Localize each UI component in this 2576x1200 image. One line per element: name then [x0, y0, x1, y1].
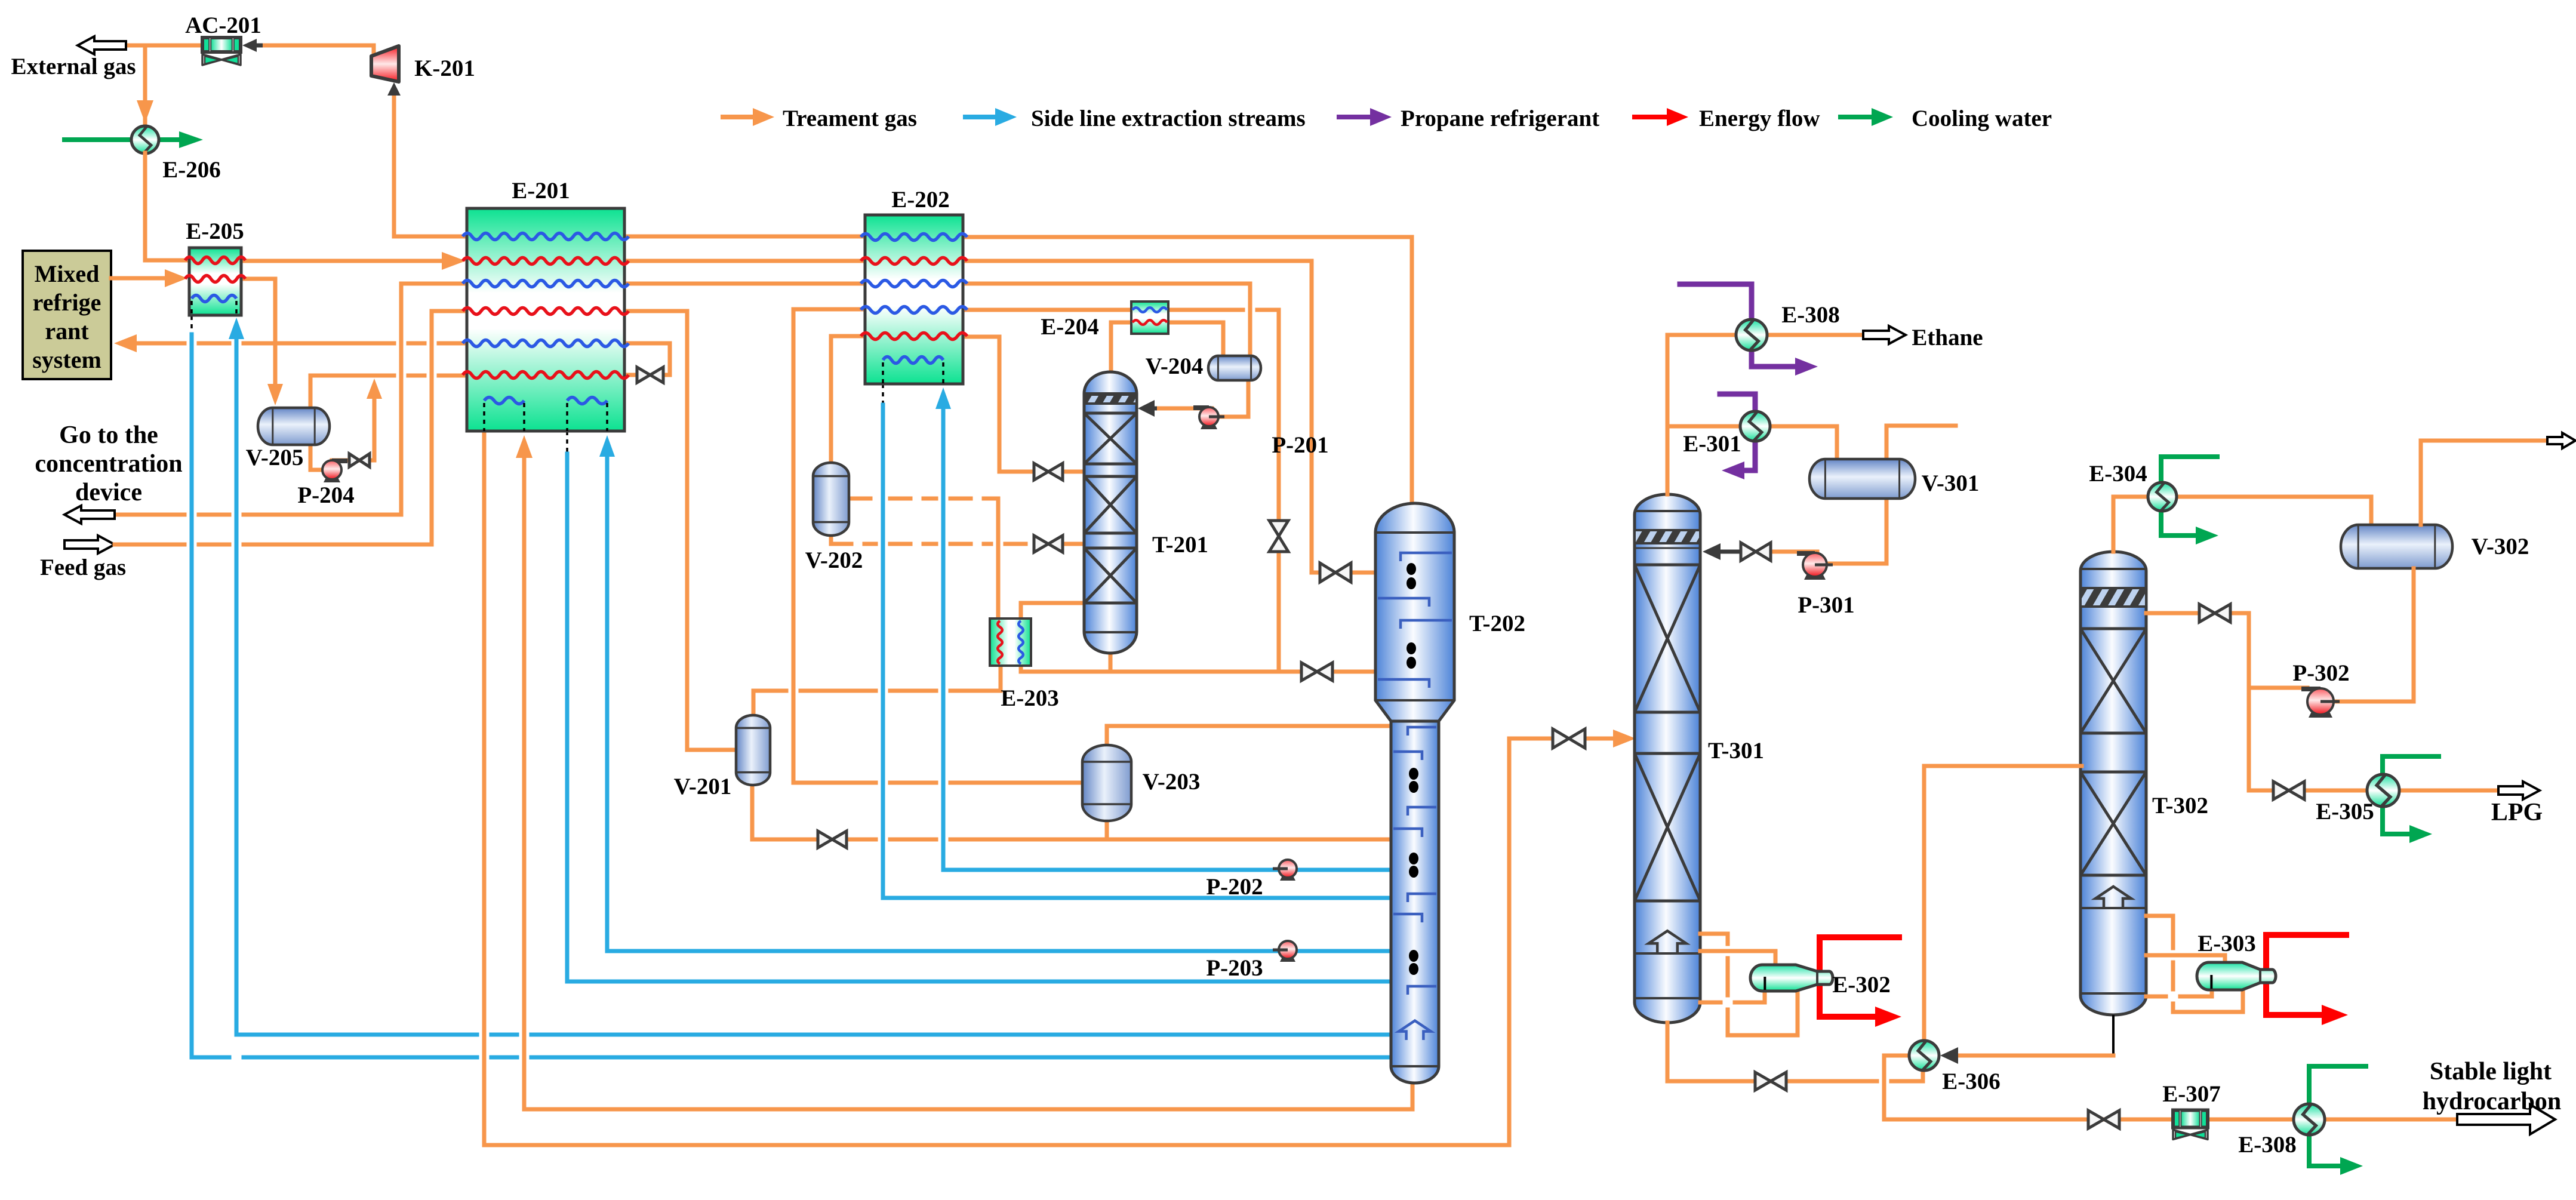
wire: P-204 discharge with valve — [332, 379, 382, 460]
svg-text:T-201: T-201 — [1152, 532, 1208, 558]
label LPG — [2491, 799, 2543, 826]
valve on V-201 bottoms — [818, 831, 847, 848]
wire: E-302 vapor return to T-301 — [1700, 951, 1775, 966]
svg-text:E-201: E-201 — [512, 178, 570, 204]
label K-201 — [414, 56, 475, 81]
svg-text:Cooling water: Cooling water — [1912, 106, 2052, 131]
label E-308 — [2238, 1132, 2297, 1158]
wire: side stream E-202 return to T-202 — [883, 384, 1392, 898]
svg-text:concentration: concentration — [35, 450, 182, 478]
kettle reboiler E-302 — [1750, 965, 1833, 991]
wire: E-202 row2 to T-202 upper feed — [963, 261, 1376, 573]
vertical valve on E-204 line — [1269, 521, 1288, 552]
wire: T-302 reflux and LPG line — [2146, 613, 2498, 790]
svg-text:K-201: K-201 — [414, 56, 475, 81]
svg-text:T-202: T-202 — [1469, 611, 1525, 636]
label P-201 — [1272, 432, 1328, 458]
heat exchanger E-304 — [2148, 482, 2177, 511]
wire: T-202 draw to E-205 with arrow — [229, 318, 1392, 1035]
legend side line extraction streams — [965, 106, 1306, 131]
svg-text:T-302: T-302 — [2152, 793, 2208, 819]
wire: E-201 bottoms to T-301 feed line — [484, 431, 1636, 1145]
pump P-302 — [2301, 688, 2340, 718]
wire: V-202 riser to E-202 row5 — [831, 336, 865, 463]
svg-text:P-302: P-302 — [2292, 660, 2349, 686]
heat exchanger E-306 — [1909, 1041, 1939, 1070]
svg-text:E-302: E-302 — [1832, 972, 1891, 998]
valve on T-201 top feed — [1034, 463, 1063, 480]
svg-text:Ethane: Ethane — [1912, 325, 1983, 350]
propane refrigerant line at E-308 — [1680, 284, 1818, 376]
heat exchanger E-203 — [990, 619, 1031, 666]
svg-text:system: system — [32, 346, 101, 373]
svg-text:E-304: E-304 — [2089, 461, 2147, 487]
wire: E-201 row3 to concentration device — [115, 284, 467, 515]
ethane outline arrow — [1863, 326, 1906, 344]
label E-201 — [512, 178, 570, 204]
wire: E-201 row4 to V-201 — [624, 311, 737, 750]
label E-205 — [186, 219, 244, 244]
multi-stream exchanger E-201 — [463, 208, 629, 431]
label E-307 — [2162, 1081, 2221, 1107]
heat exchanger E-301 — [1740, 411, 1770, 441]
valve on T-301 bottoms — [1755, 1072, 1786, 1090]
label E-304 — [2089, 461, 2147, 487]
svg-text:Mixed: Mixed — [35, 260, 100, 287]
wire: E-202 row4 to E-204 cold pass — [963, 308, 1132, 312]
svg-text:LPG: LPG — [2491, 799, 2543, 826]
svg-text:V-301: V-301 — [1922, 470, 1980, 496]
valve on T-302 reflux — [2199, 604, 2230, 622]
wire: E-306 to T-302 feed — [1924, 766, 2082, 1041]
cooling water at E-304 — [2161, 457, 2218, 544]
svg-text:E-206: E-206 — [162, 157, 221, 183]
wire: E-301 condenser line to V-301 — [1667, 426, 1837, 461]
V-302 outlet outline arrow — [2547, 433, 2575, 448]
svg-text:E-301: E-301 — [1683, 431, 1741, 457]
wire: feed gas to E-201 row4 — [115, 311, 467, 544]
heat exchanger E-204 — [1131, 301, 1168, 334]
LPG outline arrow — [2498, 781, 2540, 799]
wire: V-302 vapor outlet — [2421, 441, 2547, 525]
air cooled exchanger E-307 — [2172, 1110, 2208, 1140]
label V-202 — [805, 547, 863, 573]
svg-text:Side line extraction streams: Side line extraction streams — [1031, 106, 1306, 131]
pump P-301 — [1797, 553, 1833, 580]
wire: V-301 to P-301 reflux into T-301 — [1703, 497, 1886, 564]
column T-202 — [1375, 503, 1454, 1083]
compressor K-201 — [371, 46, 399, 82]
wire: T-301 bottoms to E-306 — [1667, 1023, 1923, 1081]
label E-204 — [1041, 314, 1099, 340]
wire: P-201 reflux to T-201 — [1138, 400, 1212, 417]
svg-text:P-204: P-204 — [297, 482, 354, 508]
svg-text:E-306: E-306 — [1942, 1069, 2001, 1094]
wire: T-302 overhead to E-304 to V-302 — [2113, 497, 2371, 552]
wire: V-202 bottom to T-201 lower feed dashed — [831, 536, 1085, 544]
svg-text:P-203: P-203 — [1206, 955, 1263, 981]
svg-text:E-303: E-303 — [2198, 931, 2256, 956]
svg-text:V-203: V-203 — [1143, 769, 1201, 795]
label E-303 — [2198, 931, 2256, 956]
heat exchanger E-206 — [131, 126, 159, 153]
svg-text:hydrocarbon: hydrocarbon — [2423, 1088, 2562, 1115]
wire: E-202 row1 to T-202 top — [963, 237, 1412, 505]
label P-302 — [2292, 660, 2349, 686]
label V-204 — [1146, 353, 1204, 379]
label T-201 — [1152, 532, 1208, 558]
wire: AC-201 outlet to External gas arrow — [126, 44, 202, 48]
wire: E-204 to V-204 — [1168, 322, 1223, 358]
svg-text:Energy flow: Energy flow — [1699, 106, 1820, 131]
cooling water line through E-206 — [64, 131, 203, 148]
column T-302 — [2081, 552, 2146, 1015]
wire: treated gas down to E-206 — [137, 45, 153, 124]
wire: E-201 row3 to E-202 row3 — [624, 282, 865, 286]
wire: E-202 row3 to V-204 — [963, 284, 1250, 358]
label E-306 — [1942, 1069, 2001, 1094]
svg-text:V-204: V-204 — [1146, 353, 1204, 379]
valve at P-204 discharge — [349, 454, 370, 467]
wire: T-301 sump to E-302 bottom — [1700, 991, 1765, 1002]
wire: T-302 reboiler draw to E-303 — [2146, 916, 2243, 1012]
wire: E-206 to E-205 hot pass — [145, 153, 189, 260]
wire: K-201 discharge to AC-201 — [263, 45, 374, 57]
svg-text:E-205: E-205 — [186, 219, 244, 244]
svg-text:E-308: E-308 — [1781, 302, 1840, 328]
svg-text:Go to the: Go to the — [59, 421, 158, 449]
legend propane refrigerant — [1339, 106, 1599, 131]
label V-205 — [246, 445, 304, 470]
valve on P-301 reflux — [1741, 543, 1771, 561]
label T-301 — [1708, 738, 1764, 764]
cooling water at E-308 — [2309, 1066, 2366, 1175]
svg-text:V-201: V-201 — [674, 774, 732, 799]
propane refrigerant line at E-301 — [1720, 394, 1755, 479]
label External gas — [11, 54, 136, 79]
horizontal vessel V-302 — [2341, 525, 2452, 568]
svg-text:E-202: E-202 — [891, 187, 950, 213]
svg-text:E-204: E-204 — [1041, 314, 1099, 340]
pump P-201 — [1193, 407, 1224, 429]
wire: E-204 to T-202 mid feed via valves — [1168, 310, 1279, 672]
label E-301 — [1683, 431, 1741, 457]
wire: V-203 riser to E-202 row4 — [793, 309, 1084, 783]
label T-202 — [1469, 611, 1525, 636]
energy flow at E-303 — [2266, 935, 2348, 1025]
legend treatment gas — [723, 106, 917, 131]
svg-text:E-307: E-307 — [2162, 1081, 2221, 1107]
mixed refrigerant system box — [23, 251, 111, 379]
wire: E-303 vapor return to T-302 — [2146, 955, 2225, 965]
svg-text:T-301: T-301 — [1708, 738, 1764, 764]
label P-202 — [1206, 874, 1263, 900]
svg-text:V-205: V-205 — [246, 445, 304, 470]
horizontal vessel V-205 — [258, 408, 330, 445]
valve on T-201 lower feed — [1034, 536, 1063, 552]
horizontal vessel V-301 — [1809, 459, 1915, 499]
external gas outline arrow — [78, 36, 126, 54]
label go to the concentration device — [35, 421, 182, 506]
wire: T-301 reboiler draw to E-302 — [1700, 934, 1798, 1035]
cooling water at E-305 — [2383, 756, 2439, 843]
label T-302 — [2152, 793, 2208, 819]
label P-204 — [297, 482, 354, 508]
svg-text:V-202: V-202 — [805, 547, 863, 573]
wire: T-201 overhead to E-204 — [1111, 322, 1132, 372]
air cooler AC-201 — [202, 37, 241, 65]
svg-text:P-201: P-201 — [1272, 432, 1328, 458]
wire: mixed refrigerant to E-205 with arrow — [111, 269, 187, 287]
svg-text:External gas: External gas — [11, 54, 136, 79]
wire: E-306 to product line — [1884, 1056, 2173, 1119]
stable light hydrocarbon outline arrow — [2457, 1104, 2555, 1134]
heat exchanger E-305 — [2367, 774, 2399, 807]
label P-301 — [1798, 592, 1854, 618]
valve on T-202 feed from T-201 bottoms — [1301, 663, 1332, 681]
label AC-201 — [185, 13, 261, 38]
valve on LPG line — [2273, 781, 2304, 799]
label V-302 — [2472, 534, 2529, 559]
legend energy flow — [1635, 106, 1820, 131]
wire: product line through E-307 E-308 to outlet — [2209, 1118, 2457, 1122]
vertical vessel V-203 — [1082, 745, 1131, 821]
pump P-202 — [1273, 860, 1297, 881]
wire: E-201 row1 to E-202 row1 — [624, 235, 865, 239]
feed gas outline arrow — [64, 536, 115, 553]
wire: V-203 bottoms junction — [1105, 821, 1109, 839]
label E-305 — [2316, 799, 2374, 824]
legend cooling water — [1841, 106, 2052, 131]
svg-text:Stable light: Stable light — [2430, 1058, 2552, 1085]
label E-206 — [162, 157, 221, 183]
wire: T-302 bottoms into E-306 — [1940, 1015, 2113, 1064]
label E-302 — [1832, 972, 1891, 998]
multi-stream exchanger E-202 — [861, 215, 967, 384]
wire: V-302 to P-302 reflux — [2249, 568, 2414, 701]
wire: T-302 sump to E-303 bottom — [2146, 990, 2212, 996]
kettle reboiler E-303 — [2197, 962, 2276, 990]
wire: overhead through E-308 to Ethane — [1667, 333, 1863, 337]
wire: E-205 to E-201 row2 with arrow — [241, 252, 466, 270]
wire: E-201 row5-row6 U loop with valve — [624, 343, 670, 375]
go to concentration outline arrow — [64, 506, 115, 524]
label V-201 — [674, 774, 732, 799]
label E-308 overhead — [1781, 302, 1840, 328]
wire: V-201 bottoms to T-202 with valve — [752, 785, 1392, 839]
horizontal vessel V-204 — [1208, 356, 1261, 380]
wire: V-202 middle draw to E-203 dashed — [850, 499, 998, 620]
pump P-204 — [322, 460, 347, 482]
svg-text:device: device — [75, 479, 142, 506]
heat exchanger E-308 overhead — [1736, 319, 1767, 350]
wire: T-202 bottoms to E-201 hot return — [516, 435, 1412, 1109]
column T-201 — [1084, 372, 1137, 653]
valve on product line — [2088, 1110, 2119, 1128]
svg-text:rant: rant — [45, 318, 89, 344]
wire: K-201 suction riser from E-201 row1 — [387, 82, 467, 236]
label V-203 — [1143, 769, 1201, 795]
wire: E-201 row2 to E-202 row2 — [624, 259, 865, 263]
valve on T-202 upper feed — [1320, 563, 1351, 582]
wire: T-202 draw via P-203 to E-201 — [599, 435, 1392, 951]
wire: E-202 row5 to T-201 top feed with valve — [963, 337, 1085, 472]
label E-203 — [1001, 685, 1059, 711]
wire: V-301 vapor line dead end — [1886, 426, 1956, 461]
wire: V-201 top to E-203 hot pass — [753, 667, 1001, 716]
svg-text:Treament gas: Treament gas — [783, 106, 917, 131]
label P-203 — [1206, 955, 1263, 981]
wire: E-201 row5 return to mixed refrigerant box with arrow — [114, 334, 467, 352]
svg-text:E-203: E-203 — [1001, 685, 1059, 711]
wire: side stream E-201 to T-202 return — [567, 431, 1392, 981]
valve on T-301 feed — [1553, 729, 1585, 748]
svg-text:Feed gas: Feed gas — [40, 555, 126, 580]
wire: V-205 bottom to P-204 — [310, 445, 322, 470]
wire: V-205 vapor to E-201 row6 — [310, 376, 467, 408]
label V-301 — [1922, 470, 1980, 496]
label Ethane — [1912, 325, 1983, 350]
wire: E-205 row2 to V-205 — [241, 279, 283, 405]
column T-301 — [1635, 494, 1700, 1023]
dark arrow into AC-201 — [242, 39, 263, 52]
svg-text:V-302: V-302 — [2472, 534, 2529, 559]
svg-text:Propane refrigerant: Propane refrigerant — [1401, 106, 1599, 131]
wire: E-205 cold return to T-202 — [192, 316, 1392, 1057]
svg-text:AC-201: AC-201 — [185, 13, 261, 38]
energy flow at E-302 — [1820, 937, 1901, 1027]
pump P-203 — [1273, 941, 1297, 962]
heat exchanger E-308 — [2294, 1104, 2325, 1135]
wire: V-203 overhead to T-202 — [1107, 726, 1393, 746]
svg-text:P-301: P-301 — [1798, 592, 1854, 618]
wire: E-203 cold pass to T-201 reboiler return — [1021, 603, 1085, 620]
wire: V-204 to P-201 — [1219, 380, 1248, 417]
vertical vessel V-201 — [736, 715, 770, 785]
wire: T-201 bottoms to T-202 via E-203 — [1021, 653, 1376, 672]
vertical vessel V-202 — [813, 463, 849, 536]
svg-text:E-305: E-305 — [2316, 799, 2374, 824]
label Feed gas — [40, 555, 126, 580]
wire: T-202 draw via P-202 to E-202 with arrow — [935, 387, 1392, 870]
label stable light hydrocarbon — [2423, 1058, 2562, 1115]
label E-202 — [891, 187, 950, 213]
wire: T-301 overhead riser — [1666, 335, 1670, 494]
valve on E-201 row6 loop — [637, 367, 663, 383]
multi-stream exchanger E-205 — [185, 248, 245, 315]
svg-text:P-202: P-202 — [1206, 874, 1263, 900]
svg-text:refrige: refrige — [33, 289, 101, 316]
svg-text:E-308: E-308 — [2238, 1132, 2297, 1158]
